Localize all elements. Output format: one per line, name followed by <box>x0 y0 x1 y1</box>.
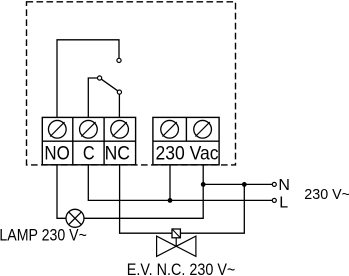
svg-text:C: C <box>83 143 95 165</box>
svg-text:230 Vac: 230 Vac <box>156 143 219 165</box>
svg-text:230 V~: 230 V~ <box>304 187 349 203</box>
svg-text:LAMP 230 V~: LAMP 230 V~ <box>0 227 87 245</box>
svg-text:NC: NC <box>105 143 130 165</box>
svg-text:E.V. N.C. 230 V~: E.V. N.C. 230 V~ <box>127 261 236 276</box>
svg-text:NO: NO <box>44 143 69 165</box>
svg-text:L: L <box>279 194 288 211</box>
svg-text:N: N <box>278 177 290 194</box>
